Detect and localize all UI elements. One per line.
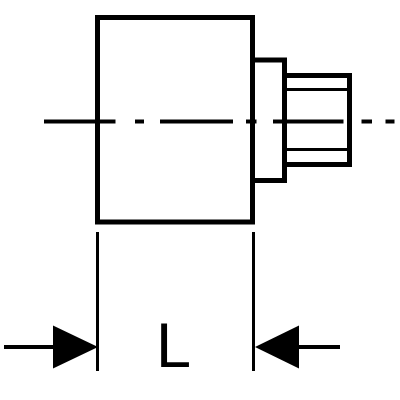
- thread root line top: [285, 88, 350, 91]
- centerline (dash-dot axis): [44, 120, 395, 124]
- extension line right: [252, 232, 255, 371]
- flange collar: [253, 60, 285, 181]
- arrowhead left (points right): [53, 326, 98, 369]
- dimension line right tail: [299, 345, 340, 349]
- svg-text:L: L: [156, 311, 191, 381]
- fitting body (large rectangle): [98, 18, 253, 223]
- extension line left: [96, 232, 99, 371]
- threaded spigot: [285, 76, 350, 165]
- dimension line left tail: [4, 345, 54, 349]
- arrowhead right (points left): [255, 326, 299, 369]
- thread root line bottom: [285, 148, 350, 151]
